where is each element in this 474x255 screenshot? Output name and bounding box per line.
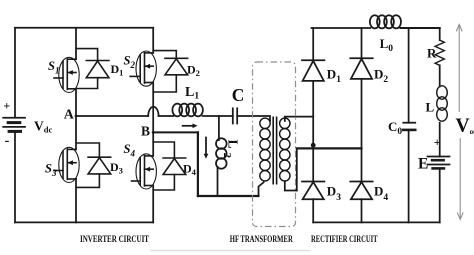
svg-text:B: B [141,123,150,138]
wire inverter left edge bottom [14,131,16,222]
node B [152,131,155,134]
label D3 inverter [110,160,123,176]
svg-text:D1: D1 [327,67,341,86]
svg-text:D3: D3 [327,184,341,204]
label + load [434,135,441,149]
svg-text:R: R [427,45,437,60]
wire leg1 lower (S3 source to bottom rail) [75,179,77,222]
caption HF TRANSFORMER [230,234,294,245]
svg-text:+: + [3,99,10,113]
wire C0 branch lower [408,130,410,223]
inductor L2 [216,138,227,168]
svg-text:Vdc: Vdc [34,119,52,135]
svg-text:RECTIFIER CIRCUIT: RECTIFIER CIRCUIT [311,234,378,245]
arrow current beside L2 [204,138,209,159]
junction dot rectifier left leg [311,143,316,148]
label - battery Vdc [5,134,10,149]
svg-text:2: 2 [221,153,233,159]
svg-text:INVERTER CIRCUIT: INVERTER CIRCUIT [80,234,149,245]
caption INVERTER CIRCUIT [80,234,149,245]
label D4 rectifier [374,184,388,204]
svg-text:S4: S4 [124,142,136,159]
svg-text:+: + [434,135,441,149]
resistor R [435,40,444,65]
wire leg2 middle (S2 source through node B to S4 drain) [152,83,154,156]
wire node B to corner [153,131,198,133]
wire leg2 upper (top rail to S2 drain) [152,28,154,53]
svg-text:D2: D2 [187,62,200,78]
label Vdc [34,119,52,135]
wire rectifier top rail right [401,27,440,29]
label node B [141,123,150,138]
svg-text:S2: S2 [124,54,136,71]
HF transformer boundary box [253,62,296,227]
svg-text:D4: D4 [374,184,388,204]
svg-text:S3: S3 [45,162,57,179]
transformer T1 secondary winding [280,118,290,181]
wire rectifier left leg middle [312,81,314,182]
diode D3 rectifier [302,182,324,200]
wire inverter top rail [15,27,153,29]
svg-text:C: C [232,85,245,105]
svg-text:A: A [64,108,75,123]
arrow current under L1 [183,124,198,129]
diode D1 rectifier [302,60,324,81]
svg-text:D4: D4 [183,161,197,177]
label D2 rectifier [374,67,388,86]
wire rectifier right leg middle [361,79,363,182]
transistor S4 [132,154,157,189]
svg-text:C0: C0 [388,119,402,137]
wire C to transformer primary top [237,116,270,121]
wire leg1 upper (top rail to S1 drain) [75,28,77,59]
caption RECTIFIER CIRCUIT [311,234,378,245]
label Vout [456,116,474,137]
label D2 inverter [187,62,200,78]
diode D2 rectifier [350,58,372,79]
diode D4 rectifier [350,182,372,200]
wire inverter left edge top [14,28,16,118]
svg-text:D3: D3 [110,160,123,176]
transformer T1 core [273,117,276,185]
svg-text:L: L [426,100,435,115]
wire L1 to capacitor C [203,115,233,117]
label C0 [388,119,402,137]
wire secondary bottom riser [296,148,298,190]
wire rectifier top rail left [312,27,371,29]
diode D1 (antiparallel S1) [76,49,109,89]
arrow Vout upper [456,24,462,111]
wire rectifier left leg lower [312,199,314,222]
label C [232,85,245,105]
label L2 rotated [221,140,241,159]
wire leg2 lower (S4 source to bottom rail) [152,186,154,223]
wire C0 branch upper [408,28,410,123]
capacitor C0 [403,123,415,130]
wire load branch top [439,28,441,40]
label D4 inverter [183,161,197,177]
wire node A to crossover [76,115,148,117]
wire R to L [439,65,441,86]
label D1 inverter [111,62,124,78]
label D1 rectifier [327,67,341,86]
inductor L load [437,86,448,121]
label S4 [124,142,136,159]
label R [427,45,437,60]
wire leg1 middle (S1 source through node A to S3 drain) [75,89,77,150]
svg-text:HF TRANSFORMER: HF TRANSFORMER [230,234,294,245]
transformer T1 primary winding [260,118,270,181]
svg-text:L1: L1 [185,85,199,102]
diode D2 (antiparallel S2) [153,51,187,92]
svg-text:E: E [418,155,428,172]
wire rectifier right leg upper [361,28,363,58]
label S1 [48,59,59,76]
label S2 [124,54,136,71]
label S3 [45,162,57,179]
svg-text:S1: S1 [48,59,59,76]
wire secondary top to rectifier left leg [285,117,313,121]
wire L2 bottom feed [217,167,219,196]
label L1 [185,85,199,102]
wire rectifier right leg lower [361,199,363,222]
inductor L0 [370,15,401,28]
transistor S1 [54,57,79,92]
label + battery Vdc [3,99,10,113]
wire inverter bottom rail [15,221,153,223]
transistor S2 [130,51,156,86]
svg-text:L: L [226,140,241,149]
wire crossover hump over leg2 [148,107,158,116]
wire secondary bottom stub [285,182,297,191]
wire L2 top feed [218,116,220,140]
wire primary bottom line [198,195,259,197]
battery E [428,157,450,169]
wire AC line to right leg [297,147,362,149]
node A [75,115,78,118]
wire B corner down [197,132,199,196]
label L0 [380,36,394,54]
wire rectifier bottom rail [313,221,440,223]
wire E to bottom rail [439,168,441,222]
svg-text:D1: D1 [111,62,124,78]
svg-text:D2: D2 [374,67,388,86]
wire primary bottom stub [259,183,264,197]
wire L to E [439,123,441,157]
capacitor C [233,108,237,123]
label D3 rectifier [327,184,341,204]
diode D3 (antiparallel S3) [76,143,111,187]
wire crossover to L1 [159,115,174,117]
arrow Vout lower [457,139,463,220]
inductor L1 [172,104,203,117]
artifact grey smudge bottom [150,250,310,252]
svg-text:L0: L0 [380,36,394,54]
label L load [426,100,435,115]
svg-text:Vout: Vout [456,116,474,137]
svg-text:-: - [5,134,10,149]
label E [418,155,428,172]
transistor S3 [54,147,79,182]
battery Vdc [3,118,25,132]
label node A [64,108,75,123]
diode D4 (antiparallel S4) [153,142,186,190]
wire rectifier left leg upper [312,28,314,60]
